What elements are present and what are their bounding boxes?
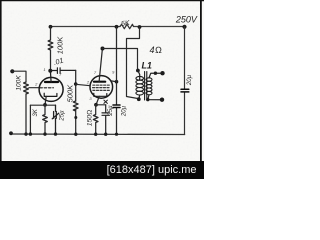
tube V1 envelope: [39, 77, 63, 101]
svg-text:100K: 100K: [56, 36, 65, 55]
wire cathode lead V1: [45, 96, 46, 105]
ground bus wire: [10, 133, 184, 136]
node cathode junction V1: [43, 103, 47, 107]
svg-text:25µ: 25µ: [108, 105, 114, 117]
grids dashes V2 (pentode): [93, 85, 111, 90]
wire secondary bottom lead: [148, 95, 162, 100]
wire control grid lead V2: [76, 84, 91, 85]
plate bar V1: [45, 81, 58, 83]
svg-text:3K: 3K: [33, 108, 39, 116]
node left of 5K: [115, 25, 119, 29]
svg-text:L1: L1: [141, 60, 152, 70]
resistor R 100K plate (vertical at x=50): [48, 27, 53, 71]
svg-text:1: 1: [43, 67, 45, 72]
capacitor 25u cathode bypass V2: [102, 105, 109, 134]
frame border left: [0, 0, 2, 179]
svg-text:250V: 250V: [175, 14, 198, 24]
wire plate lead V2 up: [99, 49, 102, 82]
wire plate to transformer primary top: [103, 49, 138, 71]
wire secondary top lead: [149, 73, 162, 78]
node 250V rail end: [182, 25, 186, 29]
node cathode junction V2: [94, 103, 98, 107]
node bus left end: [9, 131, 13, 135]
node plate junction tube1: [48, 69, 52, 73]
wire B+ top rail: [51, 26, 185, 28]
svg-text:25µ: 25µ: [60, 110, 66, 122]
node secondary top mid: [154, 72, 157, 75]
resistor 150ohm cathode V2: [93, 105, 98, 134]
frame border top: [0, 0, 204, 2]
wire cathode lead V2: [96, 96, 99, 105]
resistor 500K grid: [73, 101, 78, 134]
wire input to grid resistor: [12, 71, 26, 82]
cathode V2: [94, 93, 107, 96]
wire B+ step to primary bottom: [127, 27, 140, 99]
wire screen supply vertical (from 5K left node down to bus): [116, 27, 118, 134]
svg-text:100K: 100K: [15, 75, 22, 91]
frame border right: [200, 0, 202, 162]
capacitor 20u (right filter): [181, 89, 189, 92]
node rail left corner: [49, 25, 53, 29]
node output terminal top: [160, 71, 164, 75]
wire right vertical from 250V node down to ground bus: [184, 27, 186, 135]
svg-text:4Ω: 4Ω: [150, 45, 163, 55]
resistor 5K (series in rail): [120, 24, 134, 28]
capacitor .01 coupling: [50, 68, 75, 74]
caption bar: [0, 161, 204, 179]
wire down to grid node of V2 / resistor 500K: [75, 70, 77, 101]
node secondary bottom bend: [146, 98, 149, 101]
input terminal dot: [10, 69, 14, 73]
wire left leg of cathode network: [29, 105, 31, 134]
wire grid lead tube1: [29, 87, 40, 89]
svg-text:20µ: 20µ: [122, 105, 128, 117]
plate bar V2: [94, 81, 105, 83]
grid dashes V1: [40, 87, 54, 89]
resistor 100K input grid leak: [24, 82, 29, 134]
transformer L1 secondary winding: [146, 78, 152, 81]
wire cathode network top bar V2: [96, 104, 106, 106]
transformer core: [145, 72, 147, 101]
wire cathode network top bar V1: [30, 104, 55, 106]
wire screen lead V2 to supply line: [111, 80, 116, 83]
node right of 5K: [138, 25, 142, 29]
tube V2 envelope: [90, 76, 113, 99]
svg-text:500K: 500K: [66, 84, 75, 103]
capacitor 20u (screen filter): [113, 105, 120, 108]
svg-text:5K: 5K: [121, 20, 131, 28]
svg-text:150Ω: 150Ω: [87, 110, 94, 127]
capacitor 25u cathode bypass V1: [52, 105, 58, 134]
node output terminal bottom: [160, 98, 164, 102]
svg-text:[618x487] upic.me: [618x487] upic.me: [107, 164, 197, 176]
node plate corner V2: [101, 47, 105, 51]
svg-text:20µ: 20µ: [187, 74, 193, 86]
cathode V1: [44, 93, 57, 96]
node bus at screen line: [115, 133, 118, 136]
wire plate lead V1: [49, 71, 52, 82]
resistor 3K cathode V1: [43, 105, 48, 134]
transformer L1 primary winding: [136, 69, 140, 73]
